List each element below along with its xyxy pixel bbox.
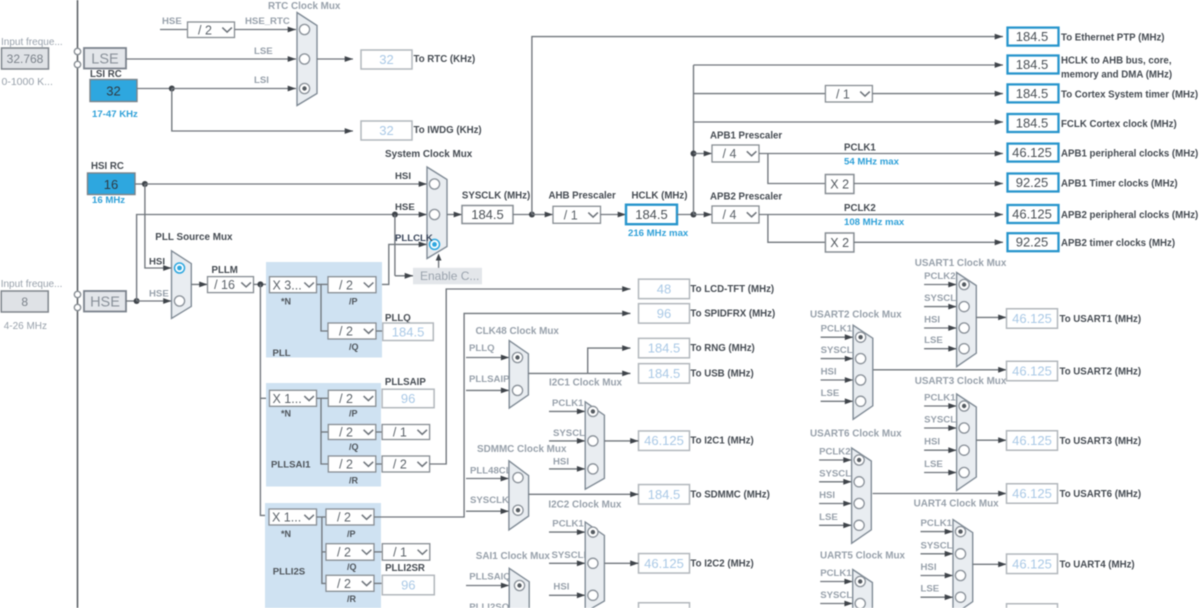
output box To UART4 (MHz) 46.125 bbox=[1007, 554, 1058, 574]
svg-text:96: 96 bbox=[657, 306, 671, 321]
mux USART3 Clock Mux bbox=[957, 394, 977, 491]
mux USART2 Clock Mux bbox=[853, 325, 873, 419]
radio LSE USART3 Clock Mux bbox=[959, 467, 969, 477]
svg-text:/ 2: / 2 bbox=[337, 577, 351, 591]
svg-text:UART4 Clock Mux: UART4 Clock Mux bbox=[914, 499, 1000, 510]
wire USART1 mux output bbox=[976, 315, 1006, 321]
radio LSI selected bbox=[299, 83, 309, 93]
output box To I2C2 (MHz) 46.125 bbox=[639, 554, 690, 574]
output box To SPIDFRX (MHz) 96 bbox=[639, 304, 690, 324]
output box RTC 32 bbox=[361, 50, 412, 69]
radio HSE sysmux bbox=[429, 209, 439, 219]
wire PLLM to PLLI2S bbox=[260, 284, 269, 515]
svg-text:SYSCLK (MHz): SYSCLK (MHz) bbox=[462, 191, 530, 202]
svg-text:/ 4: / 4 bbox=[723, 208, 737, 222]
svg-text:PCLK1: PCLK1 bbox=[821, 324, 853, 335]
wire SYSCLK stub USART1 Clock Mux bbox=[924, 304, 957, 310]
svg-text:SAI1 Clock Mux: SAI1 Clock Mux bbox=[476, 551, 551, 562]
svg-text:46.125: 46.125 bbox=[1012, 556, 1052, 571]
wire LSE stub UART4 Clock Mux bbox=[921, 594, 954, 600]
multiplier APB2 X2 bbox=[825, 233, 854, 252]
svg-text:46.125: 46.125 bbox=[1012, 207, 1052, 222]
radio LSE UART4 Clock Mux bbox=[955, 592, 965, 602]
svg-text:0-1000 K...: 0-1000 K... bbox=[2, 76, 53, 88]
wire LSE to RTC mux bbox=[126, 56, 296, 62]
PLL block background bbox=[266, 262, 382, 358]
svg-text:HSE_RTC: HSE_RTC bbox=[245, 16, 290, 27]
wire PLLSAI1 Q out bbox=[376, 431, 382, 433]
radio LSE USART1 Clock Mux bbox=[959, 344, 969, 354]
wire PLL mux to PLLM bbox=[191, 282, 207, 288]
wire UART4 mux output bbox=[973, 561, 1007, 567]
svg-text:/Q: /Q bbox=[347, 562, 357, 572]
svg-text:To RNG (MHz): To RNG (MHz) bbox=[690, 343, 754, 354]
wire branch to APB2 X2 bbox=[768, 215, 826, 243]
radio PCLK1 UART4 Clock Mux selected bbox=[955, 527, 965, 537]
wire SYSCLK stub USART3 Clock Mux bbox=[924, 425, 957, 431]
svg-text:PLLI2S: PLLI2S bbox=[273, 567, 306, 578]
radio HSI UART4 Clock Mux bbox=[955, 570, 965, 580]
value box PLLSAIP 96 bbox=[382, 389, 434, 408]
svg-text:System Clock Mux: System Clock Mux bbox=[385, 149, 473, 160]
svg-text:/ 4: / 4 bbox=[723, 147, 737, 161]
svg-text:HSE: HSE bbox=[90, 295, 120, 311]
divider HSE_RTC /2 bbox=[188, 22, 235, 38]
output box To SAI1 (MHz) 46.125 bbox=[639, 603, 690, 608]
svg-text:To Cortex System timer (MHz): To Cortex System timer (MHz) bbox=[1061, 89, 1198, 100]
radio PLLSAIQ selected bbox=[514, 580, 524, 590]
arrow enable css into mux bbox=[436, 254, 442, 269]
wire LSE stub USART1 Clock Mux bbox=[924, 346, 957, 352]
mux I2C2 Clock Mux bbox=[585, 522, 604, 608]
svg-text:PCLK2: PCLK2 bbox=[924, 271, 955, 282]
output box 46.125 APB2 peripheral clocks (MHz) bbox=[1008, 205, 1059, 223]
HSI RC box bbox=[88, 173, 136, 195]
wire PCLK1 stub UART5 Clock Mux bbox=[820, 579, 853, 585]
svg-text:To SDMMC (MHz): To SDMMC (MHz) bbox=[690, 489, 769, 500]
svg-text:PLLM: PLLM bbox=[212, 265, 238, 276]
svg-text:PLLSAIP: PLLSAIP bbox=[469, 374, 510, 385]
wire PCLK1 stub USART2 Clock Mux bbox=[821, 334, 854, 340]
svg-text:PCLK2: PCLK2 bbox=[844, 203, 876, 214]
svg-text:184.5: 184.5 bbox=[1016, 86, 1049, 101]
wire PLLQ stub to CLK48 mux bbox=[466, 355, 509, 361]
svg-text:To I2C1 (MHz): To I2C1 (MHz) bbox=[690, 436, 753, 447]
value box PLLQ 184.5 bbox=[383, 323, 434, 341]
svg-text:32: 32 bbox=[379, 52, 393, 67]
svg-text:To USART1 (MHz): To USART1 (MHz) bbox=[1060, 314, 1142, 325]
wire I2C2 mux output bbox=[604, 560, 638, 566]
wire HCLK to junction bbox=[677, 214, 694, 216]
svg-text:PLLSAI1: PLLSAI1 bbox=[271, 460, 311, 471]
svg-text:APB2 Prescaler: APB2 Prescaler bbox=[710, 192, 782, 203]
svg-text:HSI: HSI bbox=[821, 367, 837, 378]
wire HSI stub USART6 Clock Mux bbox=[819, 501, 852, 507]
wire PCLK2 stub USART1 Clock Mux bbox=[924, 282, 957, 288]
divider PLLI2S Q bbox=[326, 544, 374, 561]
svg-text:16 MHz: 16 MHz bbox=[92, 195, 125, 206]
svg-text:CLK48 Clock Mux: CLK48 Clock Mux bbox=[476, 326, 560, 337]
wire SYSCLK stub to SDMMC mux bbox=[466, 508, 509, 514]
svg-text:/Q: /Q bbox=[349, 342, 359, 352]
svg-text:To IWDG (KHz): To IWDG (KHz) bbox=[414, 125, 482, 136]
radio SYSCLK UART5 Clock Mux bbox=[855, 598, 865, 608]
radio LSE bbox=[299, 54, 309, 64]
svg-text:32: 32 bbox=[106, 84, 120, 99]
svg-text:X 1...: X 1... bbox=[273, 392, 302, 406]
svg-text:LSE: LSE bbox=[924, 459, 943, 470]
divider PLLSAI1 R2 bbox=[382, 456, 430, 472]
svg-text:Enable C...: Enable C... bbox=[420, 269, 479, 283]
svg-text:X 2: X 2 bbox=[830, 178, 849, 192]
svg-text:APB1 peripheral clocks (MHz): APB1 peripheral clocks (MHz) bbox=[1061, 149, 1198, 160]
svg-text:To RTC (KHz): To RTC (KHz) bbox=[414, 54, 476, 65]
mux USART1 Clock Mux bbox=[957, 273, 977, 367]
wire PLLSAI1 N to P bbox=[321, 397, 328, 399]
svg-text:RTC Clock Mux: RTC Clock Mux bbox=[268, 1, 341, 12]
svg-text:/ 2: / 2 bbox=[393, 458, 407, 472]
wire riser to cortex divider bbox=[694, 93, 826, 95]
divider PLL P bbox=[328, 277, 376, 293]
svg-text:LSE: LSE bbox=[821, 388, 840, 399]
svg-text:X 3...: X 3... bbox=[273, 278, 302, 292]
radio HSI USART1 Clock Mux bbox=[959, 323, 969, 333]
prescaler APB2 /4 bbox=[712, 206, 759, 223]
svg-text:HSE: HSE bbox=[162, 16, 182, 27]
wire junction to AHB prescaler bbox=[532, 212, 553, 218]
divider PLLSAI1 Q bbox=[328, 425, 376, 440]
svg-text:4-26 MHz: 4-26 MHz bbox=[4, 321, 47, 332]
svg-text:HSI: HSI bbox=[553, 582, 569, 593]
wire HSI stub USART3 Clock Mux bbox=[924, 447, 957, 453]
junction HSI bbox=[142, 181, 148, 187]
radio SYSCLK USART2 Clock Mux bbox=[856, 354, 866, 364]
wire SYSCLK stub UART4 Clock Mux bbox=[921, 551, 954, 557]
svg-text:LSE: LSE bbox=[254, 46, 273, 57]
output box To LCD-TFT (MHz) 48 bbox=[639, 279, 690, 299]
svg-text:Input freque...: Input freque... bbox=[1, 279, 63, 290]
wire FCLK output bbox=[694, 119, 1004, 125]
wire X2 to APB2 timer output bbox=[854, 239, 1003, 245]
svg-text:/ 2: / 2 bbox=[337, 546, 351, 560]
svg-text:PCLK1: PCLK1 bbox=[844, 143, 876, 154]
svg-text:48: 48 bbox=[657, 281, 671, 296]
junction PLLM bbox=[257, 281, 263, 287]
wire CLK48 out bbox=[528, 372, 587, 374]
wire arrow into Enable CSS bbox=[395, 273, 413, 279]
wire branch to APB1 X2 bbox=[768, 154, 826, 184]
svg-text:184.5: 184.5 bbox=[648, 366, 681, 381]
svg-text:184.5: 184.5 bbox=[1016, 116, 1049, 131]
svg-text:X 2: X 2 bbox=[830, 236, 849, 250]
svg-text:/P: /P bbox=[349, 297, 358, 307]
svg-text:HSE: HSE bbox=[395, 202, 415, 213]
svg-text:PLL Source Mux: PLL Source Mux bbox=[155, 232, 233, 243]
wire PLLM to PLLSAI1 bbox=[260, 397, 269, 399]
output box To USART1 (MHz) 46.125 bbox=[1007, 309, 1058, 329]
radio SYSCLK sdmmc selected bbox=[513, 505, 523, 515]
svg-text:To USART6 (MHz): To USART6 (MHz) bbox=[1060, 489, 1142, 500]
svg-text:/R: /R bbox=[347, 594, 357, 604]
radio LSE USART2 Clock Mux bbox=[856, 396, 866, 406]
radio HSI USART6 Clock Mux bbox=[854, 498, 864, 508]
divider PLLI2S R bbox=[326, 575, 374, 591]
svg-text:PCLK1: PCLK1 bbox=[820, 568, 852, 579]
svg-text:/ 1: / 1 bbox=[393, 426, 407, 440]
wire HSE to system mux bbox=[137, 212, 427, 301]
wire HSE down to Enable CSS bbox=[394, 215, 396, 276]
svg-text:16: 16 bbox=[104, 177, 118, 192]
junction LSI bbox=[169, 86, 175, 92]
svg-text:PLLQ: PLLQ bbox=[469, 343, 495, 354]
wire X2 to APB1 timer output bbox=[854, 181, 1003, 187]
svg-text:LSE: LSE bbox=[924, 335, 943, 346]
radio HSI sysmux bbox=[429, 179, 439, 189]
svg-text:To I2C2 (MHz): To I2C2 (MHz) bbox=[690, 558, 753, 569]
wire RTC mux output bbox=[317, 56, 353, 62]
svg-text:32.768: 32.768 bbox=[7, 52, 44, 66]
svg-text:HCLK to AHB bus, core,: HCLK to AHB bus, core, bbox=[1061, 56, 1172, 67]
svg-text:216 MHz max: 216 MHz max bbox=[628, 228, 689, 239]
svg-text:32: 32 bbox=[379, 123, 393, 138]
value box HCLK 184.5 blue bbox=[626, 205, 677, 225]
wire PCLK2 to APB2 peripheral output bbox=[759, 212, 1003, 218]
svg-text:92.25: 92.25 bbox=[1016, 175, 1049, 190]
prescaler AHB /1 bbox=[553, 206, 601, 223]
svg-text:/R: /R bbox=[349, 476, 359, 486]
svg-text:/P: /P bbox=[347, 529, 356, 539]
wire HSE_RTC to mux bbox=[235, 27, 297, 33]
svg-text:PCLK1: PCLK1 bbox=[924, 393, 956, 404]
divider PLLM /16 bbox=[208, 277, 254, 293]
output box 184.5 HCLK to AHB bus, core, bbox=[1008, 56, 1059, 74]
wire LSI to RTC mux bbox=[172, 86, 296, 92]
svg-text:To UART4 (MHz): To UART4 (MHz) bbox=[1060, 559, 1135, 570]
svg-text:/ 16: / 16 bbox=[214, 278, 235, 292]
svg-text:HSE: HSE bbox=[149, 289, 169, 300]
value box SYSCLK 184.5 bbox=[462, 206, 513, 224]
svg-text:HSI: HSI bbox=[149, 257, 165, 268]
svg-text:To USART3 (MHz): To USART3 (MHz) bbox=[1060, 436, 1142, 447]
wire HSI stub UART4 Clock Mux bbox=[921, 573, 954, 579]
svg-text:96: 96 bbox=[401, 578, 415, 593]
svg-text:APB1 Prescaler: APB1 Prescaler bbox=[710, 131, 782, 142]
wire PCLK2 stub USART6 Clock Mux bbox=[819, 457, 852, 463]
HSE connector pins bbox=[74, 291, 80, 297]
svg-text:To SPIDFRX (MHz): To SPIDFRX (MHz) bbox=[690, 308, 775, 319]
svg-text:To USART2 (MHz): To USART2 (MHz) bbox=[1060, 367, 1142, 378]
svg-text:/ 1: / 1 bbox=[564, 208, 578, 222]
wire HSI stub to I2C2 mux bbox=[549, 592, 585, 598]
svg-text:LSE: LSE bbox=[819, 512, 838, 523]
output box To USART6 (MHz) 46.125 bbox=[1007, 484, 1058, 504]
wire SYSCLK stub UART5 Clock Mux bbox=[820, 601, 853, 607]
LSE source box bbox=[84, 48, 126, 69]
output box To USART3 (MHz) 46.125 bbox=[1007, 431, 1058, 451]
wire HCLK junction to APB2 prescaler bbox=[694, 212, 713, 218]
radio PLLSAIP bbox=[512, 385, 522, 395]
svg-text:HCLK (MHz): HCLK (MHz) bbox=[632, 191, 688, 202]
wire PLLSAI1 N to dividers bbox=[317, 398, 329, 464]
wire HSE to RTC divider bbox=[160, 29, 188, 31]
svg-text:/ 2: / 2 bbox=[339, 325, 353, 339]
output box IWDG 32 bbox=[361, 121, 412, 140]
wire SYSCLK stub to I2C2 mux bbox=[549, 560, 585, 566]
wire PCLK1 stub to I2C2 mux bbox=[549, 529, 585, 535]
radio PLL48CLK bbox=[513, 473, 523, 483]
svg-text:HSI: HSI bbox=[553, 457, 569, 468]
svg-text:/ 2: / 2 bbox=[339, 278, 353, 292]
svg-text:184.5: 184.5 bbox=[648, 341, 681, 356]
wire PLLI2S N to Q bbox=[322, 551, 326, 553]
mux UART4 Clock Mux bbox=[953, 520, 973, 608]
output box To USB (MHz) 184.5 bbox=[639, 364, 690, 384]
svg-text:APB2 peripheral clocks (MHz): APB2 peripheral clocks (MHz) bbox=[1061, 210, 1198, 221]
PLLSAI1 block background bbox=[266, 383, 381, 487]
svg-text:46.125: 46.125 bbox=[1012, 486, 1052, 501]
svg-text:*N: *N bbox=[281, 297, 291, 307]
svg-text:USART1 Clock Mux: USART1 Clock Mux bbox=[915, 258, 1007, 269]
wire PLLI2S R out bbox=[374, 582, 382, 584]
wire I2C1 mux output bbox=[604, 438, 638, 444]
wire LSE stub USART6 Clock Mux bbox=[819, 522, 852, 528]
svg-text:LSI RC: LSI RC bbox=[90, 69, 122, 80]
mux RTC Clock Mux bbox=[297, 13, 317, 106]
radio PCLK1 i2c1 selected bbox=[588, 406, 598, 416]
svg-text:/ 1: / 1 bbox=[836, 87, 850, 101]
wire AHB to HCLK box bbox=[601, 212, 627, 218]
svg-text:184.5: 184.5 bbox=[1016, 57, 1049, 72]
wire LSE stub USART3 Clock Mux bbox=[924, 470, 957, 476]
svg-text:46.125: 46.125 bbox=[644, 433, 684, 448]
wire PLL Q out bbox=[376, 330, 383, 332]
svg-text:HSI RC: HSI RC bbox=[91, 161, 124, 172]
wire PLLM out bbox=[254, 283, 270, 285]
svg-text:FCLK Cortex clock (MHz): FCLK Cortex clock (MHz) bbox=[1061, 119, 1177, 130]
svg-text:HSI: HSI bbox=[921, 562, 937, 573]
wire CLK48 to USB bbox=[588, 371, 631, 377]
output box 184.5 FCLK Cortex clock (MHz) bbox=[1008, 114, 1059, 132]
prescaler APB1 /4 bbox=[712, 145, 759, 162]
output box 92.25 APB1 Timer clocks (MHz) bbox=[1008, 174, 1059, 192]
divider PLL Q bbox=[328, 323, 376, 339]
output box To SDMMC (MHz) 184.5 bbox=[639, 485, 690, 505]
output box To UART5 (MHz) 46.125 bbox=[1007, 604, 1058, 608]
svg-text:184.5: 184.5 bbox=[635, 207, 668, 222]
svg-text:PLL: PLL bbox=[273, 348, 291, 359]
svg-text:96: 96 bbox=[401, 391, 415, 406]
wire SYSCLK stub USART2 Clock Mux bbox=[821, 356, 854, 362]
svg-text:I2C1 Clock Mux: I2C1 Clock Mux bbox=[549, 378, 622, 389]
mux UART5 Clock Mux bbox=[853, 570, 873, 608]
LSI RC box bbox=[90, 80, 137, 102]
wire LSI box to junction bbox=[137, 88, 172, 90]
wire PLLI2SP to SPDIFRX bbox=[374, 311, 631, 518]
junction HSE bbox=[134, 298, 140, 304]
wire PLLSAI1 R out bbox=[376, 463, 382, 465]
svg-text:46.125: 46.125 bbox=[1012, 311, 1052, 326]
divider PLLSAI1 Q2 bbox=[382, 425, 430, 440]
svg-text:/ 2: / 2 bbox=[337, 511, 351, 525]
svg-text:17-47 KHz: 17-47 KHz bbox=[92, 109, 138, 120]
wire PLLP to PLLCLK into system mux bbox=[376, 242, 427, 285]
wire PLLI2S N to P bbox=[322, 516, 326, 518]
wire HSI to system mux bbox=[145, 181, 427, 187]
svg-text:To LCD-TFT (MHz): To LCD-TFT (MHz) bbox=[690, 284, 774, 295]
junction HSE to CSS bbox=[392, 212, 398, 218]
wire SYSCLK to junction bbox=[513, 214, 532, 216]
wire HSI stub USART1 Clock Mux bbox=[924, 325, 957, 331]
radio HSI USART3 Clock Mux bbox=[959, 445, 969, 455]
wire PLLI2S N to dividers bbox=[317, 517, 327, 583]
svg-text:54 MHz max: 54 MHz max bbox=[844, 157, 900, 168]
wire PCLK1 to APB1 peripheral output bbox=[759, 151, 1003, 157]
output box 184.5 To Ethernet PTP (MHz) bbox=[1008, 28, 1059, 46]
mux System Clock Mux bbox=[427, 167, 447, 259]
svg-text:PCLK1: PCLK1 bbox=[921, 518, 953, 529]
svg-text:HSI: HSI bbox=[395, 171, 411, 182]
svg-text:SYSCLK: SYSCLK bbox=[470, 495, 509, 506]
svg-text:108 MHz max: 108 MHz max bbox=[844, 217, 905, 228]
mux SDMMC Clock Mux bbox=[509, 461, 529, 530]
svg-text:Input freque...: Input freque... bbox=[1, 37, 63, 48]
svg-text:HSI: HSI bbox=[924, 315, 940, 326]
radio HSI pll selected bbox=[175, 263, 185, 273]
wire HCLK to AHB output bbox=[694, 62, 1004, 68]
svg-text:184.5: 184.5 bbox=[392, 324, 425, 339]
svg-text:PCLK1: PCLK1 bbox=[552, 398, 584, 409]
divider PLLSAI1 P bbox=[328, 390, 376, 406]
Enable CSS box bbox=[413, 268, 482, 285]
radio HSI USART2 Clock Mux bbox=[856, 375, 866, 385]
output box To RNG (MHz) 184.5 bbox=[639, 338, 690, 358]
wire PLLSAIP stub to CLK48 mux bbox=[466, 388, 509, 394]
wire USART6 mux output bbox=[873, 491, 1007, 497]
output box 46.125 APB1 peripheral clocks (MHz) bbox=[1008, 144, 1059, 162]
wire PLLI2S Q out bbox=[374, 551, 382, 553]
radio SYSCLK i2c1 bbox=[588, 436, 598, 446]
divider PLLI2S P bbox=[326, 509, 374, 525]
divider PLLSAI1 R bbox=[328, 456, 376, 472]
wire SDMMC mux output bbox=[529, 491, 639, 497]
radio PCLK2 USART6 Clock Mux selected bbox=[854, 455, 864, 465]
svg-text:8: 8 bbox=[21, 295, 28, 309]
wire USART3 mux output bbox=[976, 437, 1006, 443]
svg-text:PCLK2: PCLK2 bbox=[819, 447, 850, 458]
wire LSE stub USART2 Clock Mux bbox=[821, 398, 854, 404]
HSE source box bbox=[84, 291, 126, 312]
wire HSI box to junction bbox=[135, 183, 145, 185]
svg-text:PCLK1: PCLK1 bbox=[552, 519, 584, 530]
wire PLL48CLK stub to SDMMC mux bbox=[466, 476, 509, 482]
junction APB1 bbox=[691, 151, 697, 157]
svg-text:46.125: 46.125 bbox=[1012, 145, 1052, 160]
radio HSE pll bbox=[174, 296, 184, 306]
svg-text:*N: *N bbox=[281, 409, 291, 419]
svg-text:SDMMC Clock Mux: SDMMC Clock Mux bbox=[477, 444, 567, 455]
radio PLLQ selected bbox=[512, 352, 522, 362]
svg-text:46.125: 46.125 bbox=[1012, 364, 1052, 379]
radio HSI i2c1 bbox=[588, 464, 598, 474]
svg-text:/ 1: / 1 bbox=[393, 546, 407, 560]
radio SYSCLK USART6 Clock Mux bbox=[854, 477, 864, 487]
radio SYSCLK USART3 Clock Mux bbox=[959, 423, 969, 433]
svg-text:HSI: HSI bbox=[819, 490, 835, 501]
multiplier PLLI2S N bbox=[269, 509, 317, 525]
svg-text:LSE: LSE bbox=[91, 52, 119, 68]
radio PLLCLK selected bbox=[430, 239, 440, 249]
wire SYSCLK to Ethernet PTP bbox=[532, 34, 1003, 215]
